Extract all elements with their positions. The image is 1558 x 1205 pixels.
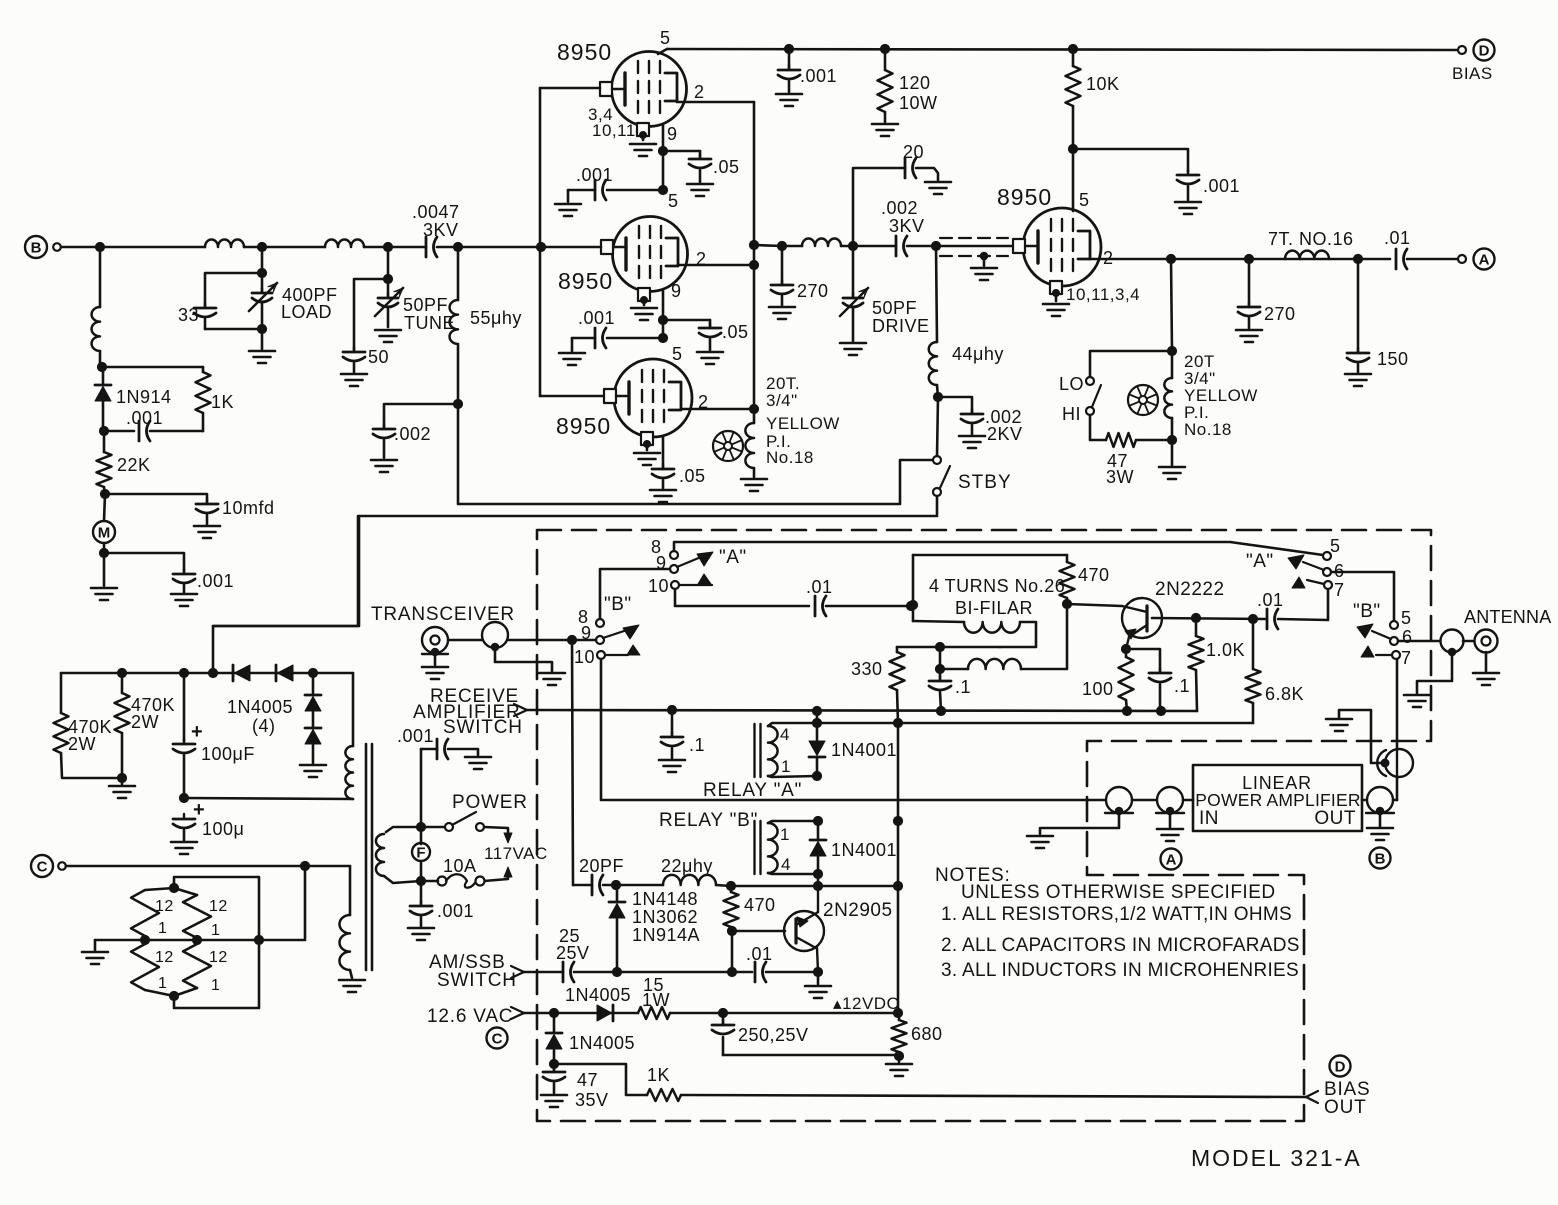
svg-text:270: 270: [1264, 304, 1296, 324]
capacitor 20PF: [591, 875, 594, 895]
node: [179, 793, 188, 802]
node: [749, 260, 758, 269]
inductor (drive line): [802, 239, 841, 246]
wire: [939, 647, 942, 669]
ground: IN 1: [1040, 814, 1119, 834]
inductor (input line 1): [205, 240, 244, 247]
capacitor .001 (V2-V3 interstage): [607, 337, 663, 340]
svg-text:D: D: [1479, 43, 1490, 60]
inductor 22uhy: [663, 875, 716, 885]
svg-text:ANTENNA: ANTENNA: [1464, 607, 1551, 627]
capacitor .001 (V1-V2 interstage): [607, 189, 663, 192]
node: [906, 601, 915, 610]
terminal A (lower): [1161, 849, 1182, 870]
capacitor .001 (top left bypass): [788, 49, 791, 68]
svg-text:9: 9: [671, 281, 682, 301]
node: [727, 967, 736, 976]
svg-text:1K: 1K: [211, 392, 234, 412]
svg-text:5: 5: [668, 191, 679, 211]
diode 1N4001 (relay A): [816, 723, 819, 740]
svg-text:1: 1: [211, 977, 220, 994]
svg-text:.05: .05: [679, 466, 706, 486]
tube V2 8950 (middle): [613, 217, 688, 292]
svg-text:7: 7: [1401, 648, 1412, 668]
svg-text:"A": "A": [1246, 551, 1274, 572]
node: [117, 773, 126, 782]
svg-text:1: 1: [211, 922, 220, 939]
svg-text:▴12VDC: ▴12VDC: [833, 994, 899, 1013]
ground: 2N2905 collector: [817, 972, 820, 984]
transceiver jack 1: [422, 627, 448, 653]
svg-text:.01: .01: [746, 944, 773, 964]
svg-text:.001: .001: [197, 571, 234, 591]
svg-text:117VAC: 117VAC: [484, 844, 548, 863]
wire: to C line: [259, 870, 305, 940]
diode 1N4005 c (vertical pair): [312, 673, 315, 694]
svg-text:4 TURNS No.26: 4 TURNS No.26: [929, 576, 1065, 596]
capacitor .01 (to relay A7): [1266, 609, 1269, 629]
wire: A10 down to .01: [675, 589, 809, 606]
svg-text:50PF: 50PF: [872, 298, 917, 318]
svg-text:330: 330: [851, 659, 883, 679]
arrow: receive switch input: [514, 704, 527, 710]
svg-text:UNLESS OTHERWISE SPECIFIED: UNLESS OTHERWISE SPECIFIED: [961, 882, 1276, 903]
pin 5 stub V1: [658, 49, 667, 54]
wire: V1 pin 2: [677, 101, 754, 104]
wire: V3 grid entry: [540, 395, 604, 398]
tube V1 8950 (top): [612, 52, 687, 127]
inductor 7T. NO.16: [1285, 251, 1329, 259]
switch STBY: [933, 456, 941, 464]
svg-text:TRANSCEIVER: TRANSCEIVER: [371, 604, 515, 625]
wire: V3 pin 9 down: [662, 436, 665, 467]
diode 1N4001 (relay B): [817, 821, 820, 840]
svg-text:50PF: 50PF: [403, 295, 448, 315]
inductor 44uhy: [936, 246, 937, 342]
node: [97, 362, 106, 371]
svg-text:25V: 25V: [556, 943, 590, 963]
wire: F fuse link: [420, 827, 423, 844]
transformer: HV primary: [352, 673, 355, 746]
node: [1122, 706, 1131, 715]
svg-text:No.18: No.18: [766, 448, 814, 467]
capacitor .001 (line filter): [420, 881, 423, 904]
inductor (B shunt choke): [99, 247, 102, 307]
ground: shield: [980, 252, 988, 260]
resistor 47 3W: [1106, 433, 1136, 447]
wire: to transceiver jacks: [213, 516, 359, 626]
wire: 1K top: [102, 366, 203, 369]
wire: to STBY: [937, 397, 938, 456]
diode 1N4005 (shunt): [553, 1013, 556, 1032]
svg-text:MODEL 321-A: MODEL 321-A: [1191, 1145, 1362, 1171]
svg-text:4: 4: [780, 725, 790, 744]
svg-text:8950: 8950: [556, 413, 611, 439]
ground: V3 cathode: [646, 446, 649, 450]
svg-text:1N4005: 1N4005: [569, 1033, 635, 1053]
capacitor .05 (V1): [663, 150, 700, 153]
svg-text:2KV: 2KV: [987, 424, 1023, 444]
node: [308, 668, 317, 677]
svg-text:B: B: [31, 240, 42, 257]
svg-text:10mfd: 10mfd: [222, 498, 275, 518]
svg-text:6.8K: 6.8K: [1265, 684, 1304, 704]
node: [658, 146, 667, 155]
node: [1121, 644, 1130, 653]
svg-text:120: 120: [899, 73, 931, 93]
wire: B7 down to OUT: [1396, 659, 1399, 800]
node: [718, 1008, 727, 1017]
svg-text:1: 1: [158, 975, 167, 992]
resistor 330: [896, 647, 899, 652]
node: [933, 392, 942, 401]
svg-text:22μhy: 22μhy: [661, 856, 713, 876]
connector: feed-through (B7 line): [1385, 749, 1413, 777]
svg-text:POWER: POWER: [452, 792, 528, 813]
wire: [420, 749, 423, 827]
node: [416, 876, 425, 885]
resistor 1.0K: [1195, 618, 1198, 636]
svg-text:2W: 2W: [131, 712, 159, 732]
wire: keying line 20PF/22uhy: [573, 884, 592, 887]
transistor 2N2905: [732, 930, 785, 933]
svg-text:10W: 10W: [899, 93, 938, 113]
ground: [94, 940, 97, 950]
node: [383, 242, 392, 251]
resistor 1K (bias): [647, 1089, 681, 1101]
svg-text:1: 1: [780, 825, 790, 844]
svg-text:9: 9: [667, 124, 678, 144]
shield dashes on output grid lead: [940, 237, 1008, 239]
svg-text:C: C: [37, 859, 48, 876]
svg-text:12.6 VAC: 12.6 VAC: [427, 1006, 513, 1027]
svg-text:(4): (4): [252, 716, 276, 736]
svg-text:.01: .01: [1384, 228, 1411, 248]
node: [749, 404, 758, 413]
svg-text:470: 470: [1078, 565, 1110, 585]
svg-text:B: B: [1375, 851, 1386, 868]
node: [777, 241, 786, 250]
capacitor 25 25V: [562, 962, 565, 982]
svg-text:1: 1: [158, 920, 167, 937]
svg-text:1N4005: 1N4005: [227, 697, 293, 717]
svg-text:20PF: 20PF: [579, 856, 624, 876]
capacitor 10mfd: [105, 494, 207, 502]
capacitor 47 35V: [553, 1064, 556, 1071]
node: [99, 426, 108, 435]
wire: A9 from B8: [600, 569, 670, 619]
node: [812, 718, 821, 727]
wire: jack line to B9: [447, 639, 596, 642]
svg-text:F: F: [416, 845, 425, 862]
wire: +12 feed line y=723: [817, 722, 1253, 725]
wire: [104, 494, 105, 521]
capacitor 20 (feedback): [853, 168, 905, 246]
wire: top bias bus: [667, 49, 1459, 50]
svg-text:1. ALL RESISTORS,1/2 WATT,IN: 1. ALL RESISTORS,1/2 WATT,IN OHMS: [941, 904, 1292, 925]
svg-text:.0047: .0047: [412, 202, 460, 222]
svg-text:2: 2: [694, 82, 705, 102]
svg-text:10A: 10A: [443, 856, 477, 876]
wire: A8 up to bus: [674, 542, 1323, 555]
node: [99, 548, 108, 557]
svg-text:YELLOW: YELLOW: [766, 414, 840, 433]
svg-text:+: +: [191, 721, 203, 743]
svg-text:.001: .001: [578, 308, 615, 328]
svg-text:M: M: [98, 525, 111, 542]
svg-text:4: 4: [781, 855, 791, 874]
wire: upper STBY rail: [458, 404, 933, 504]
svg-text:1N3062: 1N3062: [632, 907, 698, 927]
svg-text:LOAD: LOAD: [281, 302, 332, 322]
diode 1N914: [102, 367, 105, 384]
svg-text:HI: HI: [1062, 404, 1081, 424]
capacitor .001 (1N914): [104, 430, 134, 433]
connector: amplifier IN 1: [1106, 787, 1132, 813]
transformer core: [365, 744, 368, 970]
svg-text:1N4001: 1N4001: [831, 840, 897, 860]
svg-text:3W: 3W: [1106, 467, 1134, 487]
resistor 15 1W: [638, 1007, 670, 1019]
wire: [662, 320, 665, 338]
capacitor .05 (V3): [652, 468, 674, 471]
wire: A6 to B5: [1331, 572, 1394, 621]
resistor 22K: [103, 431, 106, 452]
node: bias bus junctions: [784, 44, 793, 53]
svg-text:47: 47: [577, 1070, 598, 1090]
svg-text:TUNE: TUNE: [404, 313, 455, 333]
svg-text:3. ALL INDUCTORS IN MICROHENR: 3. ALL INDUCTORS IN MICROHENRIES: [941, 960, 1299, 981]
diode 1N4005 (series): [597, 1005, 612, 1021]
node: [169, 883, 178, 892]
node: [812, 771, 821, 780]
node: [931, 241, 940, 250]
svg-text:.001: .001: [126, 408, 163, 428]
svg-text:5: 5: [1079, 190, 1090, 210]
node: [169, 991, 178, 1000]
wire + capacitor 50: [354, 279, 388, 351]
relay B coil: [753, 821, 755, 874]
antenna jack 2: [1475, 630, 1498, 653]
node: [894, 1051, 903, 1060]
wire: 4 TURNS bracket: [913, 554, 1067, 557]
node: [1244, 254, 1253, 263]
winding 12/1 c: [131, 944, 159, 990]
node: [893, 718, 902, 727]
wire: C terminal line: [31, 855, 53, 877]
switch LO/HI: [1090, 351, 1172, 377]
svg-text:10: 10: [648, 576, 669, 596]
svg-text:.001: .001: [437, 901, 474, 921]
ferrite bead (V3): [713, 431, 743, 461]
node: [1167, 346, 1176, 355]
node: [100, 489, 109, 498]
node: [893, 816, 902, 825]
resistor 1K: [202, 367, 205, 372]
svg-text:8950: 8950: [558, 268, 613, 294]
terminal B: [25, 236, 47, 258]
wire: B6 to antenna: [1398, 640, 1441, 643]
ground: M: [103, 543, 106, 553]
antenna jack 1: [1441, 630, 1464, 653]
transformer: 12.6V secondary: [349, 866, 352, 915]
svg-text:POWER AMPLIFIER: POWER AMPLIFIER: [1195, 790, 1360, 810]
node: 330 top: [935, 642, 944, 651]
wire: transceiver vertical: [572, 640, 573, 885]
node: [1166, 254, 1175, 263]
svg-text:10K: 10K: [1086, 74, 1120, 94]
svg-text:SWITCH: SWITCH: [443, 717, 523, 738]
diode 1N4148/1N3062/1N914A: [616, 889, 619, 901]
node: [1156, 706, 1165, 715]
node: [192, 935, 201, 944]
wire: [662, 151, 665, 190]
svg-text:35V: 35V: [575, 1090, 609, 1110]
wire: V3 pin 2: [681, 408, 754, 411]
svg-text:.001: .001: [800, 66, 837, 86]
svg-text:.1: .1: [1174, 676, 1190, 696]
node: [658, 185, 667, 194]
winding 12/1 a: [145, 888, 174, 890]
node: [813, 869, 822, 878]
svg-text:100: 100: [1082, 679, 1114, 699]
svg-text:100μ: 100μ: [202, 819, 244, 839]
wire: V2 pin 9 down: [662, 289, 665, 320]
svg-text:"B": "B": [1353, 601, 1381, 622]
svg-text:7: 7: [1334, 580, 1345, 600]
svg-text:.002: .002: [881, 198, 918, 218]
svg-text:22K: 22K: [117, 455, 151, 475]
node: [453, 399, 462, 408]
resistor 470 (2N2222): [1066, 555, 1069, 562]
node: [813, 816, 822, 825]
node: [117, 668, 126, 677]
node: [179, 668, 188, 677]
svg-text:1K: 1K: [647, 1065, 670, 1085]
svg-text:8950: 8950: [557, 39, 612, 65]
capacitor 50PF DRIVE (variable): [852, 246, 855, 297]
inductor (input line 2): [325, 240, 364, 247]
svg-text:RELAY "B": RELAY "B": [659, 810, 758, 831]
wire: [723, 1054, 899, 1057]
svg-text:33: 33: [178, 305, 199, 325]
resistor 470K 2W (left): [60, 673, 63, 713]
resistor 470 (keying): [730, 886, 733, 892]
svg-text:A: A: [1479, 252, 1490, 269]
inductor 20T 3/4 YELLOW P.I. No.18 (V3): [753, 409, 756, 423]
wire: plate rail V1-V3: [753, 102, 756, 409]
capacitor 400PF LOAD (variable): [261, 247, 264, 273]
node: [453, 242, 462, 251]
svg-text:OUT: OUT: [1314, 808, 1356, 829]
node: [658, 333, 667, 342]
inductor 55uhy: [457, 247, 460, 300]
svg-text:D: D: [1335, 1059, 1346, 1076]
svg-text:5: 5: [660, 28, 671, 48]
svg-text:1W: 1W: [642, 990, 670, 1010]
ground: V4 cathode: [1055, 295, 1058, 301]
diode 1N4005 d: [305, 727, 321, 730]
node: [1062, 599, 1071, 608]
terminal D BIAS OUT: [1330, 1056, 1351, 1077]
svg-text:1N4001: 1N4001: [831, 740, 897, 760]
transformer: 117V primary: [386, 827, 421, 832]
connector: amplifier IN 2: [1132, 799, 1157, 802]
svg-text:5: 5: [1401, 608, 1412, 628]
node: [1248, 614, 1257, 623]
ferrite bead (HI/LO): [1128, 385, 1158, 415]
wire: 10K to tube pin 5: [1072, 149, 1075, 211]
relay A coil: [753, 724, 755, 777]
svg-text:250,25V: 250,25V: [738, 1025, 809, 1045]
svg-text:.002: .002: [394, 424, 431, 444]
resistor 100: [1125, 649, 1128, 657]
node: [140, 935, 149, 944]
wire: +12 rail x=899: [897, 723, 900, 821]
svg-text:DRIVE: DRIVE: [872, 316, 930, 336]
transistor 2N2222: [1067, 604, 1122, 606]
svg-text:.001: .001: [576, 165, 613, 185]
capacitor .1 (bifilar): [939, 669, 942, 680]
svg-text:10,11: 10,11: [592, 121, 636, 140]
svg-text:.001: .001: [397, 726, 434, 746]
svg-text:5: 5: [1330, 536, 1341, 556]
capacitor .1 (2N2222 emitter): [1126, 649, 1160, 672]
svg-text:.01: .01: [1257, 590, 1284, 610]
svg-text:.1: .1: [689, 735, 705, 755]
capacitor .001 (output tube screen bypass): [1177, 174, 1199, 177]
svg-text:12: 12: [155, 898, 174, 915]
capacitor .002 2KV: [938, 397, 972, 413]
tube V3 8950 (bottom): [614, 359, 692, 437]
dashed enclosure: control unit: [537, 530, 1431, 1121]
capacitor 50PF TUNE (variable): [387, 247, 390, 279]
terminal A: [1458, 255, 1466, 263]
svg-text:6: 6: [1402, 627, 1413, 647]
wire: 2N2222 output: [1152, 618, 1267, 619]
wire: drive line: [754, 245, 782, 246]
node: [936, 706, 945, 715]
terminal C (lower): [487, 1028, 508, 1049]
node: [254, 935, 263, 944]
svg-text:A: A: [1166, 852, 1177, 869]
wire: [731, 931, 734, 972]
ground: feed-through: [1339, 710, 1383, 763]
diode 1N4005 b: [275, 665, 278, 681]
svg-text:1N4148: 1N4148: [632, 889, 698, 909]
node: [749, 240, 758, 249]
capacitor 270 (drive): [781, 246, 784, 284]
resistor 470K 2W (right): [121, 673, 124, 693]
arrow: bias out: [1306, 1091, 1318, 1097]
svg-text:OUT: OUT: [1324, 1097, 1367, 1118]
resistor 10K: [1072, 49, 1075, 66]
terminal D BIAS: [1458, 46, 1466, 54]
capacitor 250,25V: [722, 1013, 725, 1024]
wire: V1 pin 9 down: [662, 124, 665, 151]
svg-text:.001: .001: [1203, 176, 1240, 196]
svg-text:"B": "B": [604, 594, 632, 615]
wire: receive amplifier switch line: [527, 710, 1197, 711]
capacitor 150: [1357, 259, 1360, 352]
capacitor .05 (V2): [663, 319, 710, 322]
terminal B (lower): [1370, 848, 1391, 869]
node: [1191, 613, 1200, 622]
node: [658, 315, 667, 324]
svg-text:No.18: No.18: [1184, 420, 1232, 439]
node: [416, 822, 425, 831]
wire: V4 plate to output coil: [1171, 259, 1172, 351]
